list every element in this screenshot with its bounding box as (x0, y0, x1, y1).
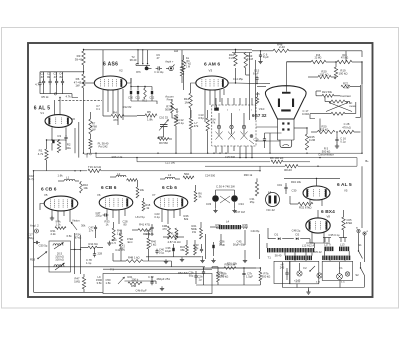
tube V7 6CB6 (154, 195, 188, 210)
node j2 (136, 157, 137, 158)
wire heater rail (306, 242, 330, 244)
svg-text:ness: ness (350, 104, 357, 108)
svg-text:R4B 1 kΩ: R4B 1 kΩ (128, 255, 140, 259)
svg-text:0.1µF: 0.1µF (344, 87, 350, 89)
svg-text:V6: V6 (97, 193, 101, 197)
resistor R35 (342, 217, 345, 230)
wire V1 junctions (47, 139, 67, 141)
resistor R11 (144, 88, 147, 99)
ground g3 (202, 258, 204, 260)
svg-text:470: 470 (162, 227, 167, 231)
node j15 (319, 157, 320, 158)
svg-text:250µ: 250µ (28, 236, 35, 240)
resistor R13 (244, 53, 247, 69)
wiper arrows crossed (326, 103, 348, 112)
plug pins bottom (215, 146, 217, 153)
resistor Rd4 (175, 228, 178, 240)
wire trunk 1 (87, 152, 362, 154)
svg-text:V5: V5 (344, 188, 348, 192)
svg-text:R5 1k: R5 1k (41, 95, 49, 99)
svg-text:0.1µ: 0.1µ (159, 251, 165, 255)
svg-text:38.40: 38.40 (275, 254, 282, 258)
resistor Rb3 (142, 201, 145, 211)
resistor R25 (305, 134, 308, 150)
svg-text:Contrast: Contrast (340, 94, 351, 98)
wire v2 top links (102, 50, 104, 77)
svg-text:47: 47 (54, 75, 58, 79)
coil L3 (165, 177, 175, 179)
potentiometer R7a (171, 102, 174, 113)
wire IF bottom rail (40, 93, 72, 95)
svg-text:R34 10k: R34 10k (291, 180, 302, 184)
node j17 (259, 170, 260, 171)
node j12 (251, 157, 252, 158)
capacitor C2 (49, 72, 51, 81)
svg-text:0.2M: 0.2M (309, 138, 316, 142)
svg-text:C44 8µ: C44 8µ (251, 229, 260, 233)
svg-text:R8 100 kΩ: R8 100 kΩ (270, 156, 283, 160)
svg-text:2-43: 2-43 (279, 45, 285, 49)
wire diode row (268, 238, 276, 240)
jack aerial (169, 66, 174, 71)
wire V5 pins (51, 211, 53, 219)
svg-text:C35 0.1µ: C35 0.1µ (329, 233, 340, 237)
ground g4 (213, 258, 215, 260)
capacitor C2b (203, 270, 205, 272)
svg-text:S1: S1 (358, 243, 362, 247)
resistor Rb1 (127, 179, 137, 182)
svg-text:0.1µ: 0.1µ (340, 140, 346, 144)
svg-text:R52 82k: R52 82k (178, 271, 189, 275)
capacitor C44 (201, 247, 203, 249)
wire V1 pins (51, 127, 53, 140)
electrolytic C3a (52, 140, 54, 143)
resistor R13b (189, 118, 192, 129)
svg-text:R15: R15 (342, 55, 347, 57)
svg-text:4k5: 4k5 (255, 92, 260, 96)
svg-text:Vision: Vision (72, 219, 80, 223)
svg-text:100 kΩ: 100 kΩ (320, 73, 329, 77)
diode D1 (278, 238, 280, 240)
plug pins top (215, 98, 217, 105)
svg-text:4.7µ: 4.7µ (29, 177, 35, 181)
svg-text:0.1: 0.1 (96, 107, 100, 111)
svg-text:228: 228 (98, 252, 103, 256)
svg-text:R12 82: R12 82 (123, 105, 132, 109)
svg-text:00140: 00140 (284, 168, 292, 172)
svg-text:6G7 32: 6G7 32 (252, 113, 267, 118)
svg-text:C30: C30 (292, 189, 297, 193)
choke L17 comb (324, 247, 333, 252)
svg-text:41k: 41k (66, 146, 71, 150)
node j9 (225, 153, 226, 154)
wire R3-R6 (83, 65, 85, 74)
wire drops (120, 230, 122, 234)
osc box (49, 241, 71, 272)
resistor R12 (189, 93, 192, 108)
svg-text:50µF+50µ: 50µF+50µ (233, 243, 246, 247)
svg-text:C25 500: C25 500 (225, 155, 236, 159)
svg-text:4.7: 4.7 (35, 83, 39, 87)
ground g2 (165, 259, 167, 261)
wire sync bottom left (34, 291, 104, 293)
svg-text:47 kΩ: 47 kΩ (185, 64, 191, 66)
wire V3 grid (191, 83, 196, 93)
capacitor Cd1 (95, 225, 97, 227)
wire left drops (74, 128, 76, 153)
wire xfmr links (284, 252, 286, 255)
wire ps verticals (294, 252, 296, 261)
resistor R29 (339, 130, 354, 133)
svg-text:R51 15k: R51 15k (227, 262, 238, 266)
svg-text:T16 22 kΩ: T16 22 kΩ (88, 165, 101, 169)
resistor R28 (317, 130, 335, 133)
svg-text:10k: 10k (140, 188, 145, 192)
terminal a2 (363, 232, 366, 235)
svg-text:C10: C10 (128, 96, 133, 100)
trimmer C10a (160, 124, 168, 126)
wire osc links (74, 233, 76, 274)
resistor R32 (298, 202, 313, 205)
capacitor C4 (62, 72, 64, 81)
svg-text:39-41: 39-41 (75, 57, 83, 61)
capacitor C11a (156, 67, 158, 69)
ground sync (161, 286, 163, 288)
svg-text:0.22: 0.22 (229, 56, 235, 60)
ground V6k (108, 241, 110, 243)
transformer T1 secondary comb (285, 256, 312, 261)
switch sync (118, 277, 125, 284)
svg-text:V2: V2 (119, 69, 123, 73)
ground C34 (234, 208, 236, 210)
resistor R9b (158, 138, 169, 141)
resistor R44 (194, 245, 197, 255)
svg-text:6 AL 5: 6 AL 5 (337, 182, 352, 188)
svg-text:L4: L4 (268, 190, 272, 194)
svg-text:68k: 68k (180, 248, 185, 252)
tube V6 6CB6 (99, 195, 133, 210)
plug contact small (250, 135, 253, 138)
capacitor bank small (324, 238, 326, 243)
svg-text:C48 2µ: C48 2µ (292, 229, 301, 233)
capacitor C10 (130, 87, 132, 91)
wire cluster bottom (131, 100, 152, 102)
wire trunk 5 (34, 170, 88, 172)
svg-text:56k: 56k (216, 226, 221, 230)
svg-text:R16: R16 (316, 55, 321, 57)
svg-text:1.6k: 1.6k (57, 174, 63, 178)
resistor R16a (311, 60, 326, 63)
capacitor C40 (156, 249, 158, 251)
svg-text:V3: V3 (209, 69, 213, 73)
choke L13 comb (339, 247, 349, 252)
CRT neck (277, 119, 279, 140)
potentiometer R21 contrast (322, 94, 334, 97)
svg-text:10k: 10k (83, 186, 88, 190)
switch S2 (361, 268, 365, 276)
tube V5 6CB6 (44, 196, 78, 211)
node j3 (157, 153, 158, 154)
electrolytic C33 (212, 195, 219, 202)
wire ps rail (204, 267, 261, 269)
svg-text:D2: D2 (296, 233, 300, 237)
sync box (103, 274, 212, 294)
svg-text:Emi: Emi (128, 240, 133, 244)
coil L1 (64, 179, 75, 181)
wire V7 pins (161, 210, 163, 223)
svg-text:38.40: 38.40 (130, 58, 137, 62)
svg-text:1W: 1W (75, 84, 80, 88)
svg-text:R5: R5 (147, 110, 151, 114)
resistor R5b (224, 267, 236, 270)
lamp P2 (317, 273, 322, 278)
resistor R7c (89, 119, 92, 134)
tube V8 6BX4 (306, 218, 330, 233)
svg-text:R26 2.2k: R26 2.2k (112, 155, 123, 159)
switch S1 (359, 251, 363, 259)
wire top bus branch (232, 52, 252, 54)
node j8 (219, 153, 220, 154)
resistor Rd5 (200, 228, 203, 239)
svg-text:1k6: 1k6 (174, 49, 179, 53)
svg-text:6 CB 6: 6 CB 6 (101, 185, 117, 191)
wire V4 pins (309, 200, 311, 205)
wire sound divider (58, 99, 102, 101)
svg-text:L12 A12 A: L12 A12 A (302, 244, 314, 248)
svg-text:2: 2 (251, 110, 252, 112)
node j21 (316, 178, 317, 179)
capacitor C36b (172, 248, 174, 251)
wire V2 anode (127, 78, 131, 83)
capacitor C12 (151, 87, 153, 91)
svg-text:R5B: R5B (131, 284, 136, 288)
svg-text:100 kΩ: 100 kΩ (55, 258, 64, 262)
svg-text:47k: 47k (194, 124, 199, 128)
svg-text:0.1µ: 0.1µ (145, 232, 151, 236)
wire pot leads (171, 99, 173, 102)
ground V5 (51, 216, 53, 218)
node j0 (83, 153, 84, 154)
wire V2 pins (102, 90, 104, 116)
svg-text:3: 3 (239, 110, 240, 112)
resistor Re1 (255, 182, 258, 196)
resistor R14c (88, 246, 97, 249)
node j1 (95, 153, 96, 154)
svg-text:6 AS6: 6 AS6 (103, 62, 118, 68)
wire sync link (125, 280, 153, 282)
svg-text:82: 82 (47, 75, 51, 79)
wire plug to neck (256, 140, 280, 142)
capacitor C16 (336, 137, 338, 139)
ps box right (322, 261, 352, 280)
svg-text:4.7k: 4.7k (65, 95, 71, 99)
svg-text:0.1µ: 0.1µ (154, 215, 160, 219)
resistor R32b (119, 234, 122, 246)
svg-text:C 02: C 02 (148, 275, 154, 279)
resistor R40 (147, 238, 150, 249)
wire mains drop (361, 62, 363, 153)
svg-text:470: 470 (113, 118, 118, 122)
svg-text:R21 50k: R21 50k (322, 90, 333, 94)
wire trunk 3 (137, 161, 270, 163)
svg-text:22 MΩ: 22 MΩ (315, 58, 322, 60)
svg-text:C4b 8 µF: C4b 8 µF (136, 289, 147, 293)
plug contact 1 (217, 125, 220, 128)
wire cluster rail (131, 86, 152, 88)
resistor R47 (82, 277, 85, 289)
wire ctrl rail (359, 85, 361, 117)
capacitor C1 (43, 72, 45, 81)
choke blob (145, 67, 149, 71)
svg-text:0.1µ: 0.1µ (178, 121, 184, 125)
svg-text:B+: B+ (365, 159, 369, 163)
svg-text:1.5k: 1.5k (55, 223, 61, 227)
node j11 (245, 157, 246, 158)
svg-text:100 kΩ: 100 kΩ (216, 274, 225, 278)
svg-text:V10: V10 (259, 107, 265, 111)
svg-text:8 µF: 8 µF (253, 72, 259, 76)
svg-text:NC 42: NC 42 (267, 208, 276, 212)
tube V2 6AS6 (94, 76, 126, 90)
wire mains bottom (283, 287, 365, 289)
capacitor C02 (151, 280, 153, 282)
svg-text:L2: L2 (117, 172, 121, 176)
svg-text:1M: 1M (184, 100, 189, 104)
wire V3 anode (228, 68, 235, 83)
transformer T1 primary comb (267, 248, 314, 252)
svg-text:82: 82 (59, 75, 63, 79)
lamp P3 (337, 274, 343, 280)
resistor R27 (341, 85, 350, 88)
svg-text:4.2c: 4.2c (341, 282, 345, 284)
wire R6 down (83, 88, 85, 153)
svg-text:L4: L4 (226, 220, 230, 224)
svg-text:C 11 12µ: C 11 12µ (154, 72, 164, 74)
svg-text:V7: V7 (152, 193, 156, 197)
svg-text:56Ω: 56Ω (184, 172, 189, 176)
svg-text:Asph +: Asph + (165, 60, 174, 64)
svg-text:R4: R4 (113, 111, 117, 115)
resistor R8a (183, 55, 185, 60)
resistor R41 (169, 236, 178, 239)
resistor R14b (206, 118, 209, 131)
potentiometer vision (55, 227, 66, 230)
plug contact 3 (242, 125, 245, 128)
svg-text:4.7k: 4.7k (38, 152, 44, 156)
node j20 (80, 170, 81, 171)
capacitor C3b (195, 274, 197, 276)
svg-text:R11: R11 (142, 99, 147, 103)
wire trunk 6 (284, 177, 340, 179)
capacitor C7b (243, 271, 245, 273)
svg-text:27n: 27n (89, 229, 94, 233)
node j5 (190, 153, 191, 154)
variable inductor L5 (53, 244, 63, 246)
svg-text:1.5µF: 1.5µF (246, 275, 253, 279)
svg-text:Pol 242: Pol 242 (98, 145, 108, 149)
ground g5 (244, 258, 246, 260)
wire trunk 4 (205, 165, 270, 167)
svg-text:R9 560: R9 560 (159, 141, 168, 145)
plug box (212, 105, 256, 146)
capacitor C3 (56, 72, 58, 81)
heater box (274, 261, 290, 283)
svg-text:0.1M: 0.1M (247, 57, 254, 61)
terminal a1 (357, 229, 360, 232)
ground C33 (215, 208, 217, 210)
resistor R48 (273, 49, 289, 52)
svg-text:R41 47Ω: R41 47Ω (139, 223, 150, 227)
svg-text:R 41 1M: R 41 1M (168, 231, 179, 235)
svg-text:V8: V8 (327, 215, 331, 219)
lamp P1 (297, 271, 302, 276)
svg-text:C12: C12 (149, 96, 154, 100)
svg-text:1 kΩ: 1 kΩ (151, 243, 157, 247)
svg-text:260µF 251: 260µF 251 (157, 277, 171, 281)
tube V3 6AM6 (196, 76, 228, 90)
svg-text:1.5k: 1.5k (105, 281, 111, 285)
capacitor Cd2 (151, 225, 153, 227)
svg-text:250µ: 250µ (96, 214, 102, 218)
svg-text:C24 500: C24 500 (205, 174, 216, 178)
svg-text:R30 1k: R30 1k (244, 173, 253, 177)
svg-text:C11: C11 (135, 96, 140, 100)
node j4 (175, 153, 176, 154)
schematic border frame (28, 43, 373, 297)
node j6 (207, 153, 208, 154)
CRT base pins (282, 122, 284, 124)
node j10 (239, 157, 240, 158)
switch ps (310, 266, 315, 271)
svg-text:V1: V1 (40, 111, 44, 115)
resistor R7b (174, 115, 177, 126)
tube V4 6AL5b (303, 186, 330, 200)
svg-text:30k: 30k (81, 224, 86, 228)
svg-text:L8 2.5µ: L8 2.5µ (135, 215, 144, 219)
wire CRT anode lead (285, 62, 287, 92)
resistor R15 (337, 60, 352, 63)
svg-text:100 kΩ: 100 kΩ (339, 72, 348, 76)
resistor R2 (57, 141, 60, 153)
svg-text:4: 4 (227, 110, 228, 112)
svg-text:C21 180: C21 180 (165, 161, 176, 165)
node j13 (269, 153, 270, 154)
coil assembly pins (137, 50, 139, 64)
svg-text:L1: L1 (66, 176, 70, 180)
ps box left (290, 261, 319, 284)
svg-text:470 kΩ: 470 kΩ (341, 58, 349, 60)
resistor Rc1 (183, 176, 194, 179)
svg-text:R14 6Ω: R14 6Ω (89, 242, 98, 246)
svg-text:C10 33: C10 33 (159, 116, 168, 120)
node j19 (74, 170, 75, 171)
wire IF rail (40, 71, 84, 73)
resistor R14a (256, 97, 259, 104)
resistor R8c (89, 139, 92, 149)
potentiometer R22 brightness (331, 100, 345, 103)
switch arm (38, 252, 47, 259)
svg-text:87kΩ: 87kΩ (346, 221, 352, 225)
wire neck left (265, 132, 282, 134)
CRT V10 funnel (265, 86, 306, 119)
ground g1 (181, 257, 183, 259)
wire trunk 2 (96, 157, 357, 159)
wire boost X (220, 196, 230, 203)
ground V3 cathode (214, 108, 219, 111)
resistor Rc2 (194, 191, 197, 202)
svg-text:L17 δ: L17 δ (324, 242, 331, 246)
svg-text:1W: 1W (192, 230, 196, 234)
